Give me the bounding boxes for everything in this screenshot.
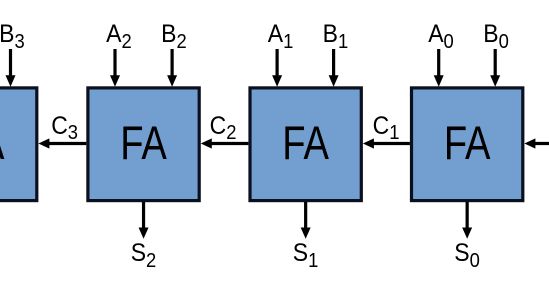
carry wire C2 xyxy=(201,138,249,148)
carry wire Cin xyxy=(524,138,549,148)
input arrow A2 xyxy=(110,49,120,87)
full-adder box FA2 xyxy=(88,88,199,201)
input arrow B3 xyxy=(6,49,16,87)
output arrow S0 xyxy=(462,202,472,239)
input arrow B2 xyxy=(167,49,177,87)
svg-text:C1: C1 xyxy=(373,112,400,144)
full-adder box FA0 xyxy=(412,88,523,201)
input arrow B0 xyxy=(490,49,500,87)
output arrow S2 xyxy=(139,202,149,239)
full-adder box FA3 xyxy=(0,88,37,201)
svg-text:A2: A2 xyxy=(106,20,132,53)
carry wire C3 xyxy=(38,138,86,148)
svg-text:C2: C2 xyxy=(210,112,237,144)
carry wire C1 xyxy=(363,138,410,148)
input arrow A0 xyxy=(434,49,444,87)
svg-text:FA: FA xyxy=(282,117,329,170)
input arrow B1 xyxy=(329,49,339,87)
output arrow S1 xyxy=(301,202,311,239)
svg-text:B1: B1 xyxy=(323,20,349,53)
svg-text:A1: A1 xyxy=(268,20,294,53)
svg-text:A0: A0 xyxy=(428,20,454,53)
svg-text:S0: S0 xyxy=(454,239,480,272)
svg-text:C3: C3 xyxy=(51,112,78,144)
svg-text:FA: FA xyxy=(120,117,167,170)
svg-text:S1: S1 xyxy=(293,239,319,272)
svg-text:B0: B0 xyxy=(483,20,509,53)
svg-text:B2: B2 xyxy=(161,20,187,53)
svg-text:FA: FA xyxy=(0,117,5,170)
svg-text:S2: S2 xyxy=(131,239,157,272)
svg-text:B3: B3 xyxy=(0,20,25,53)
input arrow A1 xyxy=(272,49,282,87)
full-adder box FA1 xyxy=(250,88,361,201)
svg-text:FA: FA xyxy=(444,117,491,170)
